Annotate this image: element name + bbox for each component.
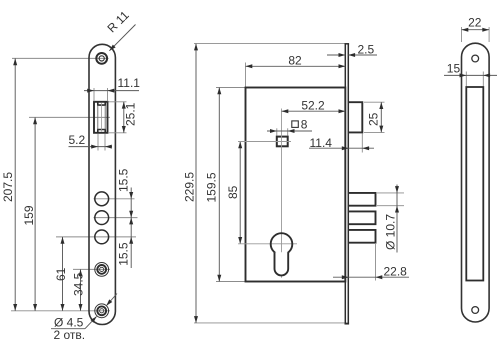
keyhole horizontal centerline (ext for 85) xyxy=(238,243,297,245)
dimension 11.1 : ext lines xyxy=(93,88,95,101)
centerline top screw hole (ext for 207.5) xyxy=(12,57,109,59)
centerline circle C3 (ext for 61) xyxy=(56,236,136,238)
leader Ø4.5 2 holes xyxy=(51,328,85,330)
second hole arrow xyxy=(106,294,117,306)
dimension 25 : line & arrows xyxy=(380,102,382,132)
right plate bottom screw hole xyxy=(472,307,479,314)
dimension 52.2 xyxy=(282,110,346,112)
dimension 11.4 : ext line xyxy=(361,133,363,152)
svg-text:2 отв.: 2 отв. xyxy=(54,328,86,342)
dimension 22.8 : line & arrows xyxy=(333,276,409,278)
dimension 207.5 xyxy=(14,58,16,310)
svg-text:25: 25 xyxy=(366,112,380,126)
middle view texts xyxy=(183,43,408,279)
dimension 85 xyxy=(239,142,241,244)
spindle horizontal centerline (ext for 85) xyxy=(238,141,291,143)
svg-text:11.4: 11.4 xyxy=(310,136,333,150)
ext line case top (159.5) xyxy=(216,87,246,89)
svg-text:Ø 10.7: Ø 10.7 xyxy=(383,214,397,250)
spindle square hole xyxy=(277,137,288,147)
countersunk screw hole xyxy=(95,263,109,277)
right plate slot xyxy=(466,87,483,281)
leader R 11 xyxy=(109,25,135,51)
dimension 15 : ext lines xyxy=(465,72,467,87)
dimension square 8 : ext lines xyxy=(276,128,278,135)
dimension 11.4 : line & arrows xyxy=(309,147,374,149)
faceplate side view left line xyxy=(344,44,346,323)
svg-text:52.2: 52.2 xyxy=(301,98,325,112)
right plate top screw hole xyxy=(472,55,479,62)
keyhole cylinder circle xyxy=(271,233,293,255)
svg-text:25.1: 25.1 xyxy=(124,102,138,126)
svg-text:22: 22 xyxy=(468,16,482,30)
dimension Ø10.7 : ext lines xyxy=(377,192,404,194)
ext line faceplate bottom (229.5) xyxy=(194,322,345,324)
svg-text:61: 61 xyxy=(54,267,68,281)
centerline circle C1 xyxy=(94,198,135,200)
left view texts xyxy=(1,8,140,342)
svg-text:2.5: 2.5 xyxy=(358,43,375,57)
circle hole C3 xyxy=(95,230,109,244)
latch bolt side view xyxy=(349,102,362,132)
right plate outline xyxy=(462,43,490,322)
ext line case bottom (159.5) xyxy=(216,281,246,283)
latch vertical centerline xyxy=(101,103,103,132)
centerline circle C2 xyxy=(94,217,138,219)
svg-text:22.8: 22.8 xyxy=(384,264,408,278)
deadbolt rod 3 xyxy=(349,230,376,243)
latch body inner lines xyxy=(97,105,99,129)
svg-text:207.5: 207.5 xyxy=(1,172,15,202)
circle hole C2 xyxy=(95,211,109,225)
svg-text:159.5: 159.5 xyxy=(205,172,219,202)
dimension 11.1 : line & arrows xyxy=(84,90,139,92)
top screw hole xyxy=(96,53,107,64)
dimension 22 : ext lines xyxy=(461,27,463,42)
dimension 34.5 xyxy=(80,269,82,310)
svg-text:15.5: 15.5 xyxy=(116,168,130,192)
ext line faceplate top (229.5) xyxy=(194,43,345,45)
dimension 25.1 : ext lines xyxy=(109,101,127,103)
centerline countersunk hole (ext for 34.5) xyxy=(73,268,110,270)
faceplate bottom cap xyxy=(345,323,350,325)
deadbolt rod 2 xyxy=(349,211,376,224)
circle hole C1 xyxy=(95,192,109,206)
latch cutout bottom notch xyxy=(98,130,105,133)
svg-text:34.5: 34.5 xyxy=(72,272,86,296)
latch cutout top notch xyxy=(98,102,105,105)
dimension 25 : ext lines xyxy=(364,101,385,103)
dimension 15 : line & arrows xyxy=(444,74,497,76)
dimension 15.5 x2 : shared line & arrows xyxy=(130,188,132,269)
svg-text:85: 85 xyxy=(226,185,240,199)
dimension 2.5 xyxy=(327,54,345,56)
dimension 22.8 : ext line xyxy=(375,243,377,281)
faceplate side view right line xyxy=(347,44,349,323)
lock case rectangle xyxy=(246,88,346,282)
latch cutout outer rectangle xyxy=(94,102,108,133)
dimension 159.5 xyxy=(218,88,220,282)
dimension 25.1 : line & arrows xyxy=(123,102,125,133)
svg-text:82: 82 xyxy=(288,54,302,68)
dimension 229.5 xyxy=(195,44,197,323)
svg-text:11.1: 11.1 xyxy=(118,76,141,90)
dimension square 8 : line & arrows xyxy=(267,130,312,132)
svg-text:159: 159 xyxy=(22,205,36,225)
faceplate top cap xyxy=(345,43,350,45)
spindle/keyhole vertical centerline xyxy=(281,109,283,278)
svg-text:5.2: 5.2 xyxy=(69,133,86,147)
faceplate outline left view xyxy=(89,44,115,324)
centerline bottom screw hole (ext for 207.5/159/61/34.5) xyxy=(11,310,110,312)
label square8 symbol xyxy=(292,121,299,128)
centerline latch (ext for 159) xyxy=(29,116,110,118)
ext line 82 at case corner xyxy=(245,63,247,88)
svg-text:8: 8 xyxy=(301,118,308,132)
keyhole cylinder stem xyxy=(275,252,289,275)
bottom screw hole xyxy=(95,304,109,318)
svg-text:229.5: 229.5 xyxy=(183,172,197,202)
svg-text:15.5: 15.5 xyxy=(116,242,130,266)
dimension Ø10.7 : line & arrows xyxy=(396,185,398,253)
dimension 22 : line & arrows xyxy=(462,29,490,31)
dimension 5.2 : line & arrows xyxy=(69,146,113,148)
svg-text:15: 15 xyxy=(447,62,461,76)
deadbolt rod 1 xyxy=(349,193,376,206)
svg-text:Ø 4.5: Ø 4.5 xyxy=(54,315,84,329)
dimension 5.2 : ext lines xyxy=(97,134,99,151)
right view texts xyxy=(447,16,482,76)
dimension 82 xyxy=(246,65,346,67)
dimension 159 xyxy=(34,117,36,310)
dimension 61 xyxy=(62,237,64,311)
